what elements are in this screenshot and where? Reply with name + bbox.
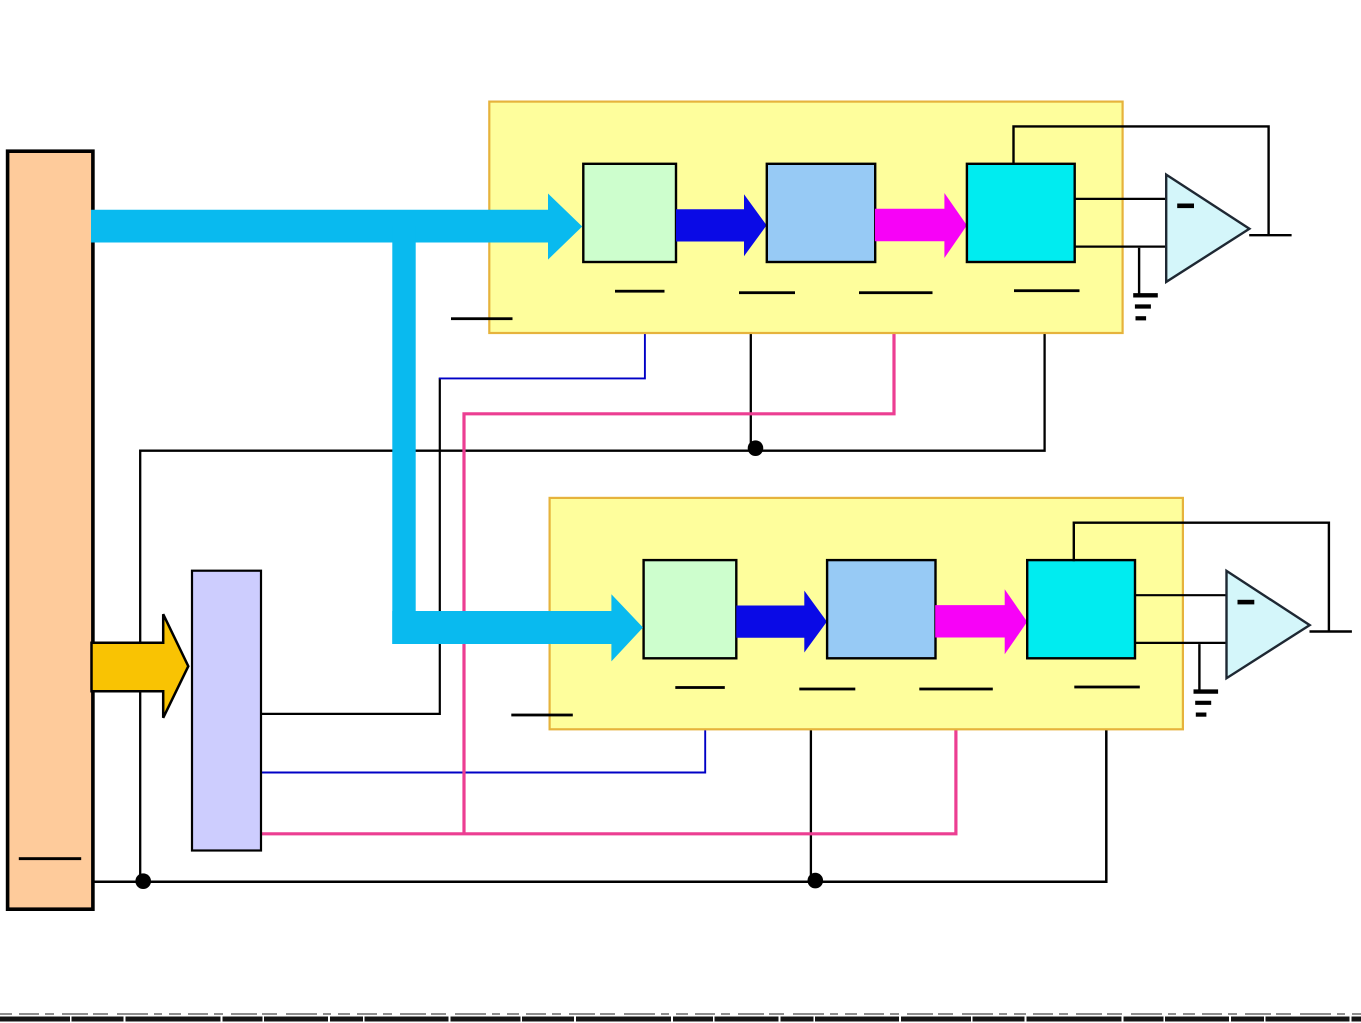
wire: DAC to op-amp non-inverting input: [1075, 246, 1173, 248]
arrow: gold data arrow into register: [92, 614, 189, 718]
op-amp U2: [1166, 175, 1249, 282]
arrow: thick cyan audio bus, upper run with head: [91, 194, 582, 260]
ground: [1133, 295, 1158, 318]
wire: pink control line upper: [464, 333, 894, 834]
wire: black drop from lower yellow block to node B: [810, 729, 812, 879]
block: lower channel group (yellow): [550, 498, 1183, 729]
wire: DAC to op-amp non-inverting input: [1135, 642, 1233, 644]
minus sign at inverting input: [1177, 204, 1194, 209]
label underline under green block: [615, 290, 665, 293]
wire: DAC to op-amp inverting input: [1075, 198, 1173, 200]
wire: op-amp output stub: [1310, 630, 1352, 632]
arrow: magenta data arrow U3b to U3c: [935, 589, 1027, 654]
wire: black net from U1 DAC block down-left-down to ground bus: [140, 333, 1044, 882]
block: interpolation filter U1a (green): [583, 164, 676, 262]
wire: navy control line upper: [439, 333, 645, 378]
node A junction dot: [748, 440, 764, 456]
label underline right of blue block: [919, 688, 993, 691]
label underline inside orange block: [19, 857, 81, 860]
wire: ground stub: [1198, 644, 1200, 691]
wire: pink control line lower: [262, 729, 956, 833]
decorative bottom speckle rows: [0, 1013, 1361, 1015]
wire: black from register block right edge up to navy junction: [261, 378, 440, 714]
block: register (lavender): [192, 571, 261, 851]
label underline under blue block: [799, 688, 855, 691]
ground: [1194, 692, 1219, 715]
block: upper channel group (yellow): [489, 102, 1122, 333]
wire: feedback loop from DAC top to op-amp output: [1014, 126, 1269, 235]
label underline under cyan block: [1074, 686, 1140, 689]
minus sign at inverting input: [1238, 600, 1255, 605]
block: DAC U1c (cyan): [967, 164, 1075, 262]
block: interpolation filter U3a (green): [644, 560, 737, 658]
wire: DAC to op-amp inverting input: [1135, 594, 1233, 596]
op-amp U4: [1227, 571, 1310, 678]
label underline under cyan block: [1014, 289, 1080, 292]
wire: black drop from upper yellow block to node A: [750, 333, 752, 447]
wire: ground stub: [1138, 248, 1140, 295]
label underline at yellow block left edge: [451, 317, 513, 320]
label underline under blue block: [739, 291, 795, 294]
wire: navy control line lower: [262, 729, 706, 772]
block: sigma-delta modulator U3b (blue): [827, 560, 935, 658]
wire: feedback loop from DAC top to op-amp output: [1074, 523, 1329, 632]
block: host interface (orange): [8, 151, 93, 909]
arrow: blue data arrow U1a to U1b: [676, 194, 767, 256]
node C junction dot on bus: [135, 873, 151, 889]
label underline right of blue block: [859, 291, 933, 294]
label underline under green block: [675, 686, 725, 689]
node B junction dot: [808, 873, 824, 889]
block: sigma-delta modulator U1b (blue): [767, 164, 875, 262]
label underline at yellow block left edge: [511, 714, 573, 717]
wire: bottom ground bus with riser to lower yellow block: [93, 729, 1106, 881]
arrow: magenta data arrow U1b to U1c: [875, 193, 967, 258]
block: DAC U3c (cyan): [1027, 560, 1135, 658]
arrow: blue data arrow U3a to U3b: [736, 591, 827, 653]
arrow: thick cyan audio bus, vertical channel: [392, 226, 415, 644]
wire: op-amp output stub: [1249, 234, 1291, 236]
arrow: thick cyan audio bus, lower run with head: [392, 594, 643, 661]
